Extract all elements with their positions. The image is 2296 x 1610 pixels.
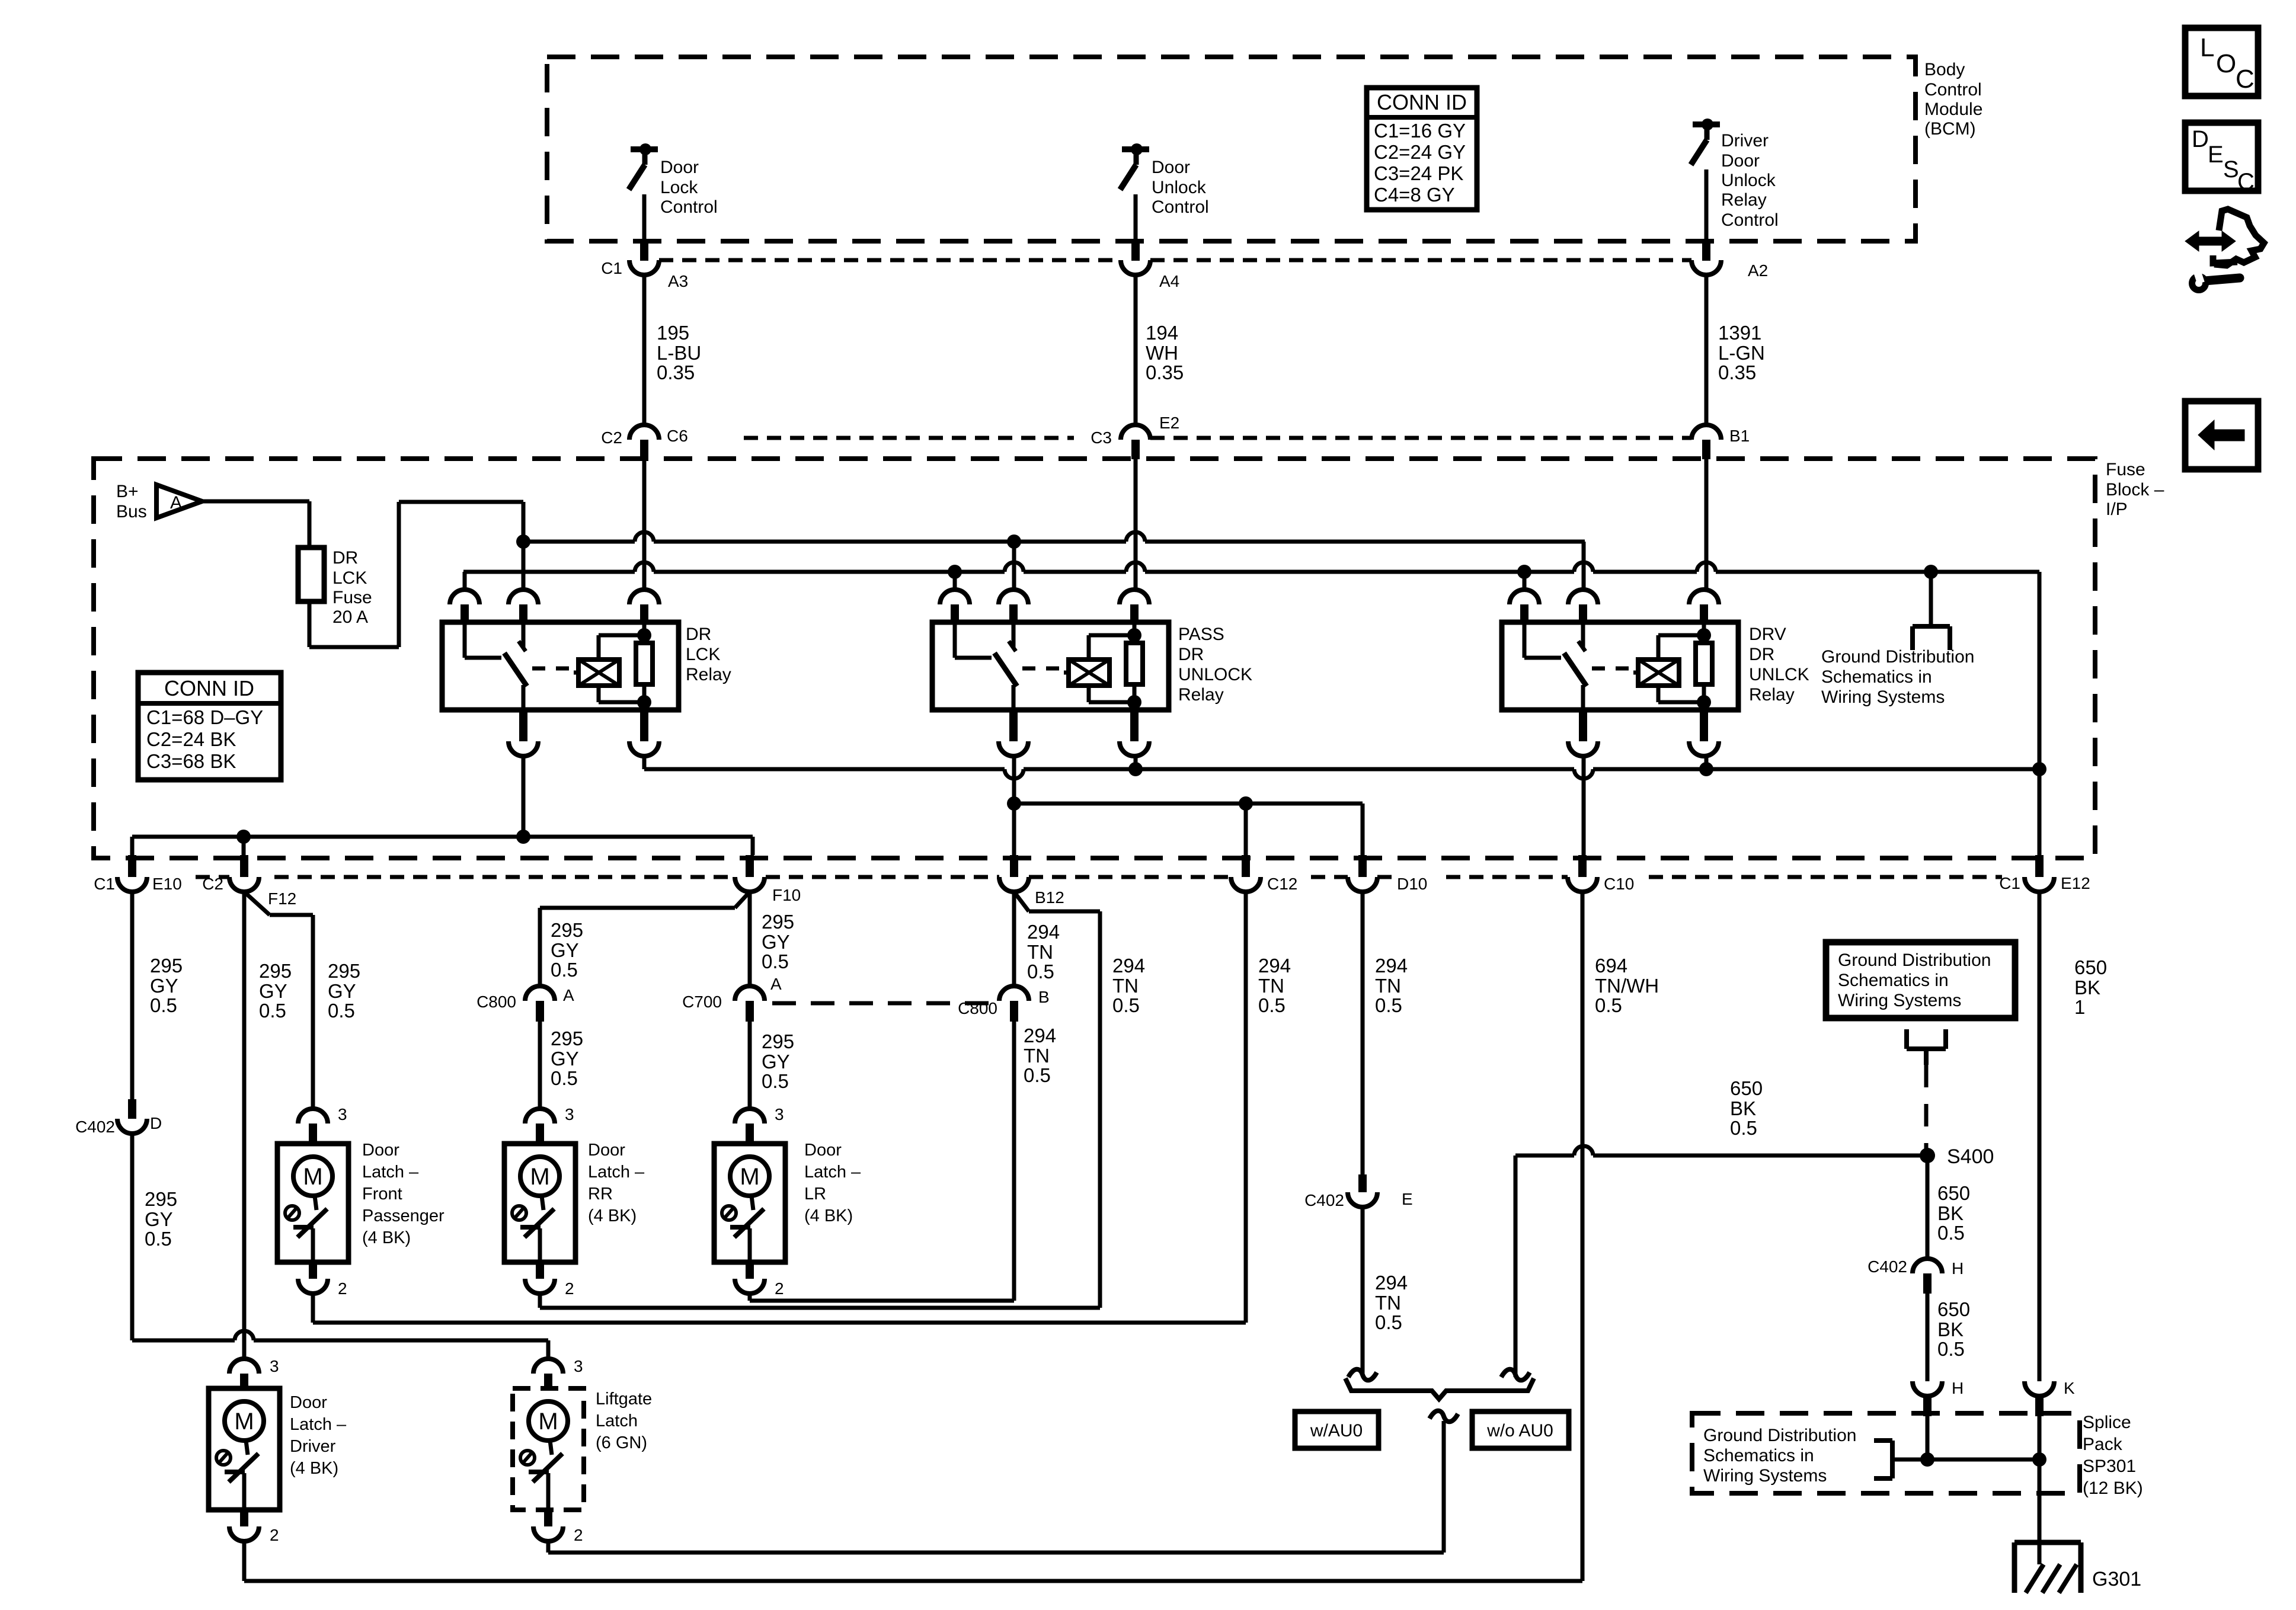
svg-text:GY: GY xyxy=(328,980,356,1002)
svg-text:Wiring Systems: Wiring Systems xyxy=(1838,991,1961,1010)
svg-text:LCK: LCK xyxy=(686,645,720,664)
svg-text:Door: Door xyxy=(1721,151,1760,171)
svg-text:I/P: I/P xyxy=(2106,500,2128,519)
svg-text:0.5: 0.5 xyxy=(259,1000,286,1022)
connector SP301 pin K xyxy=(2025,1379,2075,1416)
svg-text:CONN ID: CONN ID xyxy=(164,676,254,700)
svg-text:TN: TN xyxy=(1258,975,1284,997)
wire bus2 to DR LCK relay pin1 xyxy=(463,572,467,590)
ground distribution bracket symbol xyxy=(1907,1029,1946,1065)
SP301 splice bar xyxy=(1892,1416,2046,1467)
option break symbol (w/o AU0 wire) xyxy=(1501,1369,1530,1381)
motor Door Latch - LR xyxy=(714,1105,785,1298)
wire 650 BK 1 (E12 to SP301 K) xyxy=(2038,892,2042,1381)
motor Door Latch - Front Passenger xyxy=(277,1105,348,1298)
svg-text:0.5: 0.5 xyxy=(1027,961,1054,982)
svg-text:0.5: 0.5 xyxy=(1024,1064,1051,1086)
connector pin C10 xyxy=(1568,855,1634,893)
svg-text:A3: A3 xyxy=(668,272,688,290)
Body Control Module (BCM) dashed box xyxy=(547,57,1916,241)
connector pin F10 xyxy=(735,855,801,904)
SP301 bracket symbol xyxy=(1874,1441,1892,1478)
svg-text:Door: Door xyxy=(804,1141,842,1160)
label 650 BK 0.5 (C402H-SP301) xyxy=(1937,1298,1970,1360)
label DR LCK Relay xyxy=(686,625,731,684)
wire RR latch pin2 to B12 line xyxy=(540,1294,1100,1308)
svg-text:650: 650 xyxy=(1937,1182,1970,1204)
connector row C1 dotted line xyxy=(659,258,1691,263)
svg-text:650: 650 xyxy=(1730,1077,1763,1099)
option break symbol (w/AU0 wire) xyxy=(1348,1369,1377,1381)
svg-text:TN: TN xyxy=(1027,941,1053,963)
connector C1 pin A3 xyxy=(601,259,688,290)
option break symbol (common) xyxy=(1430,1411,1458,1422)
label B+ Bus xyxy=(116,482,147,521)
svg-text:0.5: 0.5 xyxy=(1595,994,1622,1016)
svg-text:TN: TN xyxy=(1112,975,1139,997)
connector C2 pin C6 xyxy=(601,425,688,459)
motor Liftgate Latch (dashed) xyxy=(513,1357,584,1544)
net unlock output line y=1356 xyxy=(1007,756,1363,855)
svg-text:E12: E12 xyxy=(2061,874,2090,892)
svg-text:Bus: Bus xyxy=(116,502,147,521)
icon back-arrow box xyxy=(2185,401,2258,469)
svg-text:C2: C2 xyxy=(601,428,622,447)
svg-text:Door: Door xyxy=(290,1393,327,1412)
wire 295 GY 0.5 C800 A to Door Latch RR xyxy=(538,1022,542,1109)
svg-text:E10: E10 xyxy=(152,875,182,893)
fuse DR LCK Fuse 20 A xyxy=(298,548,324,601)
svg-text:M: M xyxy=(234,1409,254,1435)
svg-text:(12 BK): (12 BK) xyxy=(2083,1478,2143,1498)
svg-text:C3=68 BK: C3=68 BK xyxy=(146,750,236,772)
ground distribution branch symbol (fuse block) xyxy=(1913,572,1950,650)
svg-text:294: 294 xyxy=(1258,955,1291,977)
svg-text:195: 195 xyxy=(657,322,689,344)
wire 294 TN 0.5 C402 E to w/AU0 xyxy=(1361,1207,1365,1374)
label Fuse Block - I/P xyxy=(2106,460,2164,519)
wire FP latch pin2 to C12 line xyxy=(313,1294,1246,1323)
wire bus2 to PASS relay pin1 xyxy=(953,572,957,590)
svg-text:C4=8 GY: C4=8 GY xyxy=(1374,184,1455,206)
wire driver latch pin2 to 694 line xyxy=(242,1541,247,1581)
svg-text:F12: F12 xyxy=(268,889,296,908)
svg-text:0.5: 0.5 xyxy=(1375,994,1402,1016)
svg-text:Door: Door xyxy=(1152,158,1190,177)
wire bus2 to DRV relay pin1 xyxy=(1523,572,1527,590)
svg-text:(4 BK): (4 BK) xyxy=(588,1206,637,1225)
svg-text:0.5: 0.5 xyxy=(551,959,578,981)
svg-text:0.5: 0.5 xyxy=(1375,1311,1402,1333)
svg-text:0.35: 0.35 xyxy=(1718,361,1756,383)
label 194 WH 0.35 xyxy=(1146,322,1184,383)
wire 295 GY 0.5 from E10 xyxy=(130,892,135,1099)
svg-text:A2: A2 xyxy=(1748,261,1768,280)
wire 195 L-BU 0.35 (A3 to C6) xyxy=(642,275,647,425)
svg-text:3: 3 xyxy=(565,1105,574,1124)
svg-text:0.5: 0.5 xyxy=(1937,1222,1965,1244)
svg-text:2: 2 xyxy=(270,1526,279,1544)
svg-text:M: M xyxy=(740,1164,759,1190)
splice S400 xyxy=(1920,1145,1994,1168)
svg-text:C3: C3 xyxy=(1091,428,1112,447)
svg-text:Door: Door xyxy=(362,1141,399,1160)
label Ground Distribution Schematics in Wiring Systems (SP301) xyxy=(1703,1426,1856,1486)
svg-text:E2: E2 xyxy=(1159,414,1179,432)
label Body Control Module (BCM) xyxy=(1924,60,1982,139)
label Door Latch - Driver (4 BK) xyxy=(290,1393,347,1478)
svg-text:Control: Control xyxy=(1152,197,1209,217)
svg-text:Control: Control xyxy=(1721,210,1779,230)
svg-text:Latch: Latch xyxy=(596,1411,638,1430)
wire 295 GY 0.5 F12 to Door Latch Front Passenger xyxy=(244,892,313,1109)
icon remove-install (arrow, door outline, wrench) xyxy=(2185,209,2264,293)
connector pin A2 xyxy=(1691,260,1768,280)
svg-text:0.5: 0.5 xyxy=(762,950,789,972)
label 295 GY 0.5 (below C402 D) xyxy=(145,1188,177,1250)
svg-text:GY: GY xyxy=(145,1208,173,1230)
svg-text:294: 294 xyxy=(1112,955,1145,977)
svg-text:3: 3 xyxy=(775,1105,784,1124)
label 295 GY 0.5 (F10) xyxy=(762,911,794,972)
B+ Bus feed triangle A xyxy=(156,485,202,518)
svg-text:Door: Door xyxy=(588,1141,625,1160)
connector pin D10 xyxy=(1348,855,1427,893)
svg-text:(4 BK): (4 BK) xyxy=(362,1228,411,1247)
wire 1391 L-GN 0.35 (A2 to B1) xyxy=(1705,275,1709,425)
wire liftgate latch pin2 to AU0 brace xyxy=(548,1421,1444,1553)
connector SP301 pin H xyxy=(1913,1379,1964,1416)
svg-text:C1=16 GY: C1=16 GY xyxy=(1374,120,1466,142)
wire 294 TN 0.5 C800 B to LR latch pin2 xyxy=(1012,1022,1016,1301)
svg-text:GY: GY xyxy=(762,1051,790,1073)
svg-text:Schematics in: Schematics in xyxy=(1838,971,1949,990)
svg-text:Door: Door xyxy=(660,158,699,177)
connector pin A4 xyxy=(1121,260,1179,290)
connector row C2/C3 dotted line xyxy=(744,436,1691,440)
svg-text:Ground Distribution: Ground Distribution xyxy=(1821,647,1974,667)
svg-text:DR: DR xyxy=(686,625,711,644)
svg-text:C402: C402 xyxy=(1304,1191,1344,1209)
svg-text:D: D xyxy=(2192,126,2209,152)
svg-text:M: M xyxy=(538,1409,558,1435)
svg-text:B12: B12 xyxy=(1035,888,1064,907)
svg-text:Fuse: Fuse xyxy=(332,588,372,607)
svg-text:0.5: 0.5 xyxy=(1112,994,1140,1016)
svg-text:C1: C1 xyxy=(601,259,622,277)
svg-text:3: 3 xyxy=(338,1105,347,1124)
wire bus1 to PASS relay pin2 xyxy=(1012,542,1016,590)
icon DESC box xyxy=(2185,123,2258,195)
svg-text:Unlock: Unlock xyxy=(1152,178,1207,197)
wire B+ feed to DR LCK fuse xyxy=(202,501,309,548)
svg-text:C402: C402 xyxy=(75,1118,115,1136)
svg-text:H: H xyxy=(1952,1379,1964,1397)
svg-text:B1: B1 xyxy=(1729,427,1750,445)
label 294 TN 0.5 (B12 right) xyxy=(1112,955,1145,1016)
svg-text:C800: C800 xyxy=(477,993,516,1011)
svg-text:295: 295 xyxy=(551,919,583,941)
svg-text:Wiring Systems: Wiring Systems xyxy=(1703,1466,1827,1486)
label 294 TN 0.5 (below C800 B) xyxy=(1024,1025,1056,1086)
motor Door Latch - Driver xyxy=(209,1357,280,1544)
box Ground Distribution Schematics in Wiring Systems xyxy=(1826,942,2015,1018)
svg-text:Relay: Relay xyxy=(1721,190,1767,210)
svg-text:294: 294 xyxy=(1027,921,1060,943)
label 294 TN 0.5 (below C402 E) xyxy=(1375,1272,1408,1333)
wire 295 GY 0.5 F10 to C800 A xyxy=(540,892,750,986)
svg-text:Front: Front xyxy=(362,1185,402,1204)
switch Driver Door Unlock Relay Control (BCM) xyxy=(1691,119,1720,261)
wire 294 TN 0.5 D10 to C402 E xyxy=(1361,892,1365,1174)
wire bus2 to E12 (650 BK 1) xyxy=(2038,572,2042,855)
label Door Latch - RR (4 BK) xyxy=(588,1141,645,1225)
net unlock coil-return line y=1298 xyxy=(644,756,2046,779)
label Door Latch - LR (4 BK) xyxy=(804,1141,861,1225)
svg-text:BK: BK xyxy=(1937,1318,1964,1340)
svg-text:2: 2 xyxy=(565,1279,574,1298)
connector C3 pin E2 xyxy=(1091,414,1179,459)
bus2 ground bus (y=965) xyxy=(463,562,2039,579)
svg-text:L: L xyxy=(2200,33,2214,62)
wire bus1 end to DRV relay pin2 xyxy=(1582,542,1586,590)
wire 650 BK 0.5 (w/o AU0 to S400) xyxy=(1515,1146,1927,1377)
wire coil feed PASS relay pin3 xyxy=(1134,459,1138,590)
svg-text:BK: BK xyxy=(1937,1202,1964,1224)
svg-text:GY: GY xyxy=(551,1048,579,1070)
label 294 TN 0.5 (D10) xyxy=(1375,955,1408,1016)
svg-text:Latch –: Latch – xyxy=(804,1163,861,1182)
svg-text:RR: RR xyxy=(588,1185,613,1204)
svg-text:TN/WH: TN/WH xyxy=(1595,975,1659,997)
svg-text:SP301: SP301 xyxy=(2083,1457,2136,1476)
label 650 BK 0.5 (left of S400) xyxy=(1730,1077,1763,1139)
wire 295 GY 0.5 F10 to C700 A xyxy=(748,892,752,986)
svg-text:E: E xyxy=(2208,142,2224,168)
svg-text:LR: LR xyxy=(804,1185,826,1204)
svg-text:20 A: 20 A xyxy=(332,607,368,627)
label 295 GY 0.5 (E10) xyxy=(150,955,183,1016)
svg-text:LCK: LCK xyxy=(332,568,367,588)
svg-text:295: 295 xyxy=(762,911,794,933)
svg-text:C2=24 BK: C2=24 BK xyxy=(146,728,236,750)
svg-text:GY: GY xyxy=(762,931,790,953)
wire DRV relay common to C10 xyxy=(1582,756,1586,855)
connector C800 pin A xyxy=(477,986,574,1022)
label 650 BK 0.5 (S400-C402H) xyxy=(1937,1182,1970,1244)
svg-text:Control: Control xyxy=(660,197,718,217)
svg-text:A4: A4 xyxy=(1159,272,1179,290)
connector row C800/C700 dashed line xyxy=(772,1001,996,1006)
wire 650 BK 0.5 (S400 to C402 H) xyxy=(1926,1156,1930,1259)
wire bus1 to DR LCK relay pin2 xyxy=(522,542,526,590)
svg-text:0.35: 0.35 xyxy=(657,361,695,383)
svg-text:0.5: 0.5 xyxy=(1937,1338,1965,1360)
svg-text:3: 3 xyxy=(574,1357,583,1375)
connector C800 pin B xyxy=(958,986,1050,1022)
label 295 GY 0.5 (below C800 A) xyxy=(551,1028,583,1089)
box w/o AU0 xyxy=(1472,1411,1569,1448)
svg-text:295: 295 xyxy=(551,1028,583,1049)
svg-text:C800: C800 xyxy=(958,999,997,1017)
label 650 BK 1 xyxy=(2074,956,2107,1018)
svg-text:650: 650 xyxy=(2074,956,2107,978)
svg-text:L-BU: L-BU xyxy=(657,342,701,364)
svg-text:Wiring Systems: Wiring Systems xyxy=(1821,687,1945,707)
switch Door Lock Control (BCM) xyxy=(629,143,658,261)
svg-text:K: K xyxy=(2064,1379,2075,1397)
svg-text:C6: C6 xyxy=(667,427,688,445)
svg-text:0.5: 0.5 xyxy=(1258,994,1285,1016)
label 195 L-BU 0.35 xyxy=(657,322,701,383)
svg-text:0.5: 0.5 xyxy=(150,994,177,1016)
svg-text:294: 294 xyxy=(1375,1272,1408,1294)
svg-text:Driver: Driver xyxy=(290,1437,336,1456)
CONN ID table (BCM) xyxy=(1367,88,1477,210)
label 295 GY 0.5 (above C800 A) xyxy=(551,919,583,981)
svg-text:TN: TN xyxy=(1024,1045,1050,1067)
wire 294 TN 0.5 C12 to FP latch pin2 xyxy=(1244,892,1248,1323)
svg-text:0.5: 0.5 xyxy=(1730,1117,1757,1139)
svg-text:DR: DR xyxy=(1749,645,1774,664)
svg-text:Latch –: Latch – xyxy=(588,1163,645,1182)
label Driver Door Unlock Relay Control xyxy=(1721,131,1779,230)
label Splice Pack SP301 (12 BK) xyxy=(2083,1413,2143,1498)
label G301 xyxy=(2092,1568,2141,1590)
label 294 TN 0.5 (C12) xyxy=(1258,955,1291,1016)
svg-text:295: 295 xyxy=(762,1030,794,1052)
label 694 TN/WH 0.5 xyxy=(1595,955,1659,1016)
relay DR LCK Relay xyxy=(442,590,679,756)
svg-text:TN: TN xyxy=(1375,975,1401,997)
svg-text:0.5: 0.5 xyxy=(145,1228,172,1250)
svg-text:C2: C2 xyxy=(202,875,223,893)
svg-text:S: S xyxy=(2223,156,2239,183)
label 1391 L-GN 0.35 xyxy=(1718,322,1765,383)
svg-text:C: C xyxy=(2236,65,2255,94)
svg-text:Latch –: Latch – xyxy=(362,1163,419,1182)
svg-text:TN: TN xyxy=(1375,1292,1401,1314)
svg-text:Passenger: Passenger xyxy=(362,1206,445,1225)
wire LR latch pin2 to C800 B line xyxy=(750,1294,1014,1301)
option brace xyxy=(1345,1378,1534,1399)
label 295 GY 0.5 (F12 right) xyxy=(328,960,360,1022)
svg-text:(BCM): (BCM) xyxy=(1924,119,1976,139)
svg-text:C1=68 D–GY: C1=68 D–GY xyxy=(146,706,263,728)
label Liftgate Latch (6 GN) xyxy=(596,1390,652,1452)
label Ground Distribution Schematics in Wiring Systems (fuse block) xyxy=(1821,647,1974,707)
svg-text:0.35: 0.35 xyxy=(1146,361,1184,383)
svg-text:C12: C12 xyxy=(1267,875,1297,893)
svg-text:D10: D10 xyxy=(1397,875,1427,893)
label 294 TN 0.5 (B12 left) xyxy=(1027,921,1060,982)
connector C402 pin D xyxy=(75,1099,162,1136)
svg-text:BK: BK xyxy=(2074,977,2100,998)
svg-text:BK: BK xyxy=(1730,1097,1756,1119)
svg-text:C3=24 PK: C3=24 PK xyxy=(1374,162,1463,184)
Splice Pack SP301 dashed box xyxy=(1692,1413,2080,1493)
svg-text:Body: Body xyxy=(1924,60,1965,79)
svg-text:(4 BK): (4 BK) xyxy=(290,1459,338,1478)
wire SP301 to G301 xyxy=(2038,1459,2042,1564)
relay DRV DR UNLCK Relay xyxy=(1502,590,1738,756)
svg-text:Schematics in: Schematics in xyxy=(1703,1446,1814,1465)
svg-text:GY: GY xyxy=(551,939,579,961)
connector pin B1 xyxy=(1691,425,1750,459)
svg-text:S400: S400 xyxy=(1947,1145,1994,1168)
svg-text:B: B xyxy=(1038,988,1050,1006)
svg-text:L-GN: L-GN xyxy=(1718,342,1765,364)
svg-text:295: 295 xyxy=(259,960,292,982)
wire fuse output to bus1 xyxy=(309,502,523,647)
svg-text:Lock: Lock xyxy=(660,178,698,197)
wire 294 TN 0.5 B12 to C800 B xyxy=(1012,892,1016,986)
svg-text:UNLCK: UNLCK xyxy=(1749,665,1809,684)
connector C1 pin E12 xyxy=(1999,855,2090,892)
svg-text:C402: C402 xyxy=(1868,1257,1907,1276)
svg-text:C1: C1 xyxy=(94,875,115,893)
icon LOC box xyxy=(2185,28,2258,96)
connector pin B12 xyxy=(999,855,1064,907)
svg-text:M: M xyxy=(530,1164,549,1190)
svg-text:(4 BK): (4 BK) xyxy=(804,1206,853,1225)
svg-text:1: 1 xyxy=(2074,996,2085,1018)
svg-text:H: H xyxy=(1952,1259,1964,1278)
svg-text:3: 3 xyxy=(270,1357,279,1375)
svg-text:Pack: Pack xyxy=(2083,1435,2123,1454)
svg-text:Fuse: Fuse xyxy=(2106,460,2145,479)
wire 295 GY 0.5 (C402 D to liftgate) xyxy=(132,1134,548,1359)
svg-text:GY: GY xyxy=(150,975,178,997)
svg-text:650: 650 xyxy=(1937,1298,1970,1320)
svg-text:CONN ID: CONN ID xyxy=(1377,90,1467,114)
ground G301 symbol xyxy=(2014,1542,2081,1593)
svg-text:C700: C700 xyxy=(682,993,722,1011)
label Door Lock Control xyxy=(660,158,718,217)
relay PASS DR UNLOCK Relay xyxy=(932,590,1169,756)
svg-text:Schematics in: Schematics in xyxy=(1821,667,1932,687)
label DRV DR UNLCK Relay xyxy=(1749,625,1809,705)
svg-text:1391: 1391 xyxy=(1718,322,1761,344)
svg-text:Relay: Relay xyxy=(1749,685,1795,705)
svg-text:Liftgate: Liftgate xyxy=(596,1390,652,1409)
label Door Unlock Control xyxy=(1152,158,1209,217)
svg-text:M: M xyxy=(303,1164,322,1190)
box w/AU0 xyxy=(1295,1411,1379,1448)
motor Door Latch - RR xyxy=(504,1105,575,1298)
svg-text:C1: C1 xyxy=(1999,874,2020,892)
switch Door Unlock Control (BCM) xyxy=(1120,143,1149,261)
svg-text:(6 GN): (6 GN) xyxy=(596,1433,647,1452)
connector C402 pin H xyxy=(1868,1257,1964,1294)
svg-text:Control: Control xyxy=(1924,80,1982,100)
label 295 GY 0.5 (F12 left) xyxy=(259,960,292,1022)
svg-text:B+: B+ xyxy=(116,482,139,501)
svg-text:294: 294 xyxy=(1375,955,1408,977)
svg-text:UNLOCK: UNLOCK xyxy=(1178,665,1252,684)
label Door Latch - Front Passenger (4 BK) xyxy=(362,1141,445,1247)
Fuse Block - I/P dashed box xyxy=(94,459,2095,858)
svg-text:Splice: Splice xyxy=(2083,1413,2131,1432)
label DR LCK Fuse 20 A xyxy=(332,548,372,627)
wire 295 GY 0.5 C700 A to Door Latch LR xyxy=(748,1022,752,1109)
connector C402 pin E xyxy=(1304,1174,1413,1209)
svg-text:GY: GY xyxy=(259,980,287,1002)
svg-text:E: E xyxy=(1402,1190,1413,1208)
svg-text:DRV: DRV xyxy=(1749,625,1786,644)
svg-text:2: 2 xyxy=(574,1526,583,1544)
wire 295 GY 0.5 F12 to Door Latch Driver xyxy=(242,892,247,1359)
